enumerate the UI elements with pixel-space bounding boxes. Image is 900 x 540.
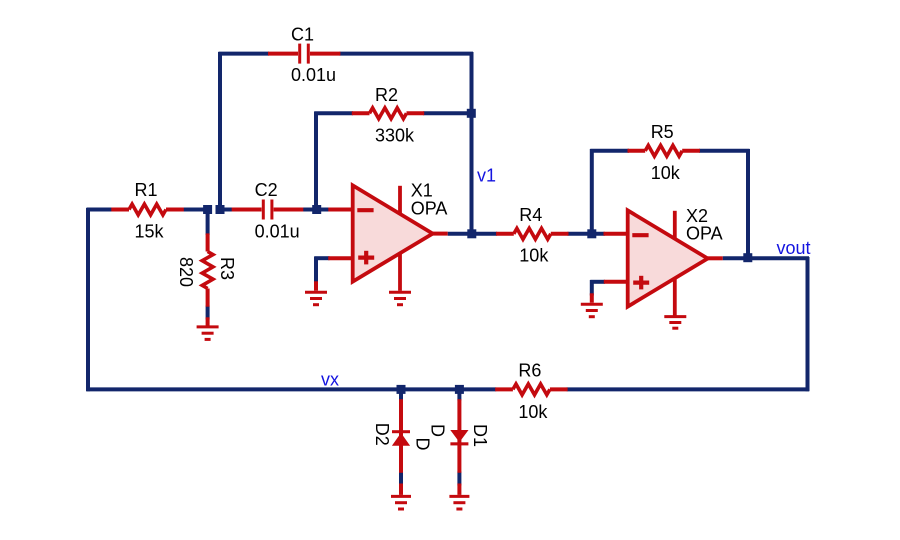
svg-text:v1: v1: [477, 166, 496, 186]
svg-text:820: 820: [176, 257, 196, 287]
svg-text:C1: C1: [291, 24, 314, 44]
svg-text:C2: C2: [255, 180, 278, 200]
svg-text:D2: D2: [372, 423, 392, 446]
svg-text:R4: R4: [519, 205, 542, 225]
svg-text:D: D: [412, 438, 432, 451]
svg-text:vx: vx: [321, 369, 339, 389]
svg-text:R6: R6: [518, 360, 541, 380]
svg-text:10k: 10k: [651, 163, 681, 183]
svg-text:330k: 330k: [375, 125, 415, 145]
svg-text:R1: R1: [135, 180, 158, 200]
svg-text:D: D: [428, 424, 448, 437]
svg-text:OPA: OPA: [686, 223, 723, 243]
svg-text:R3: R3: [217, 257, 237, 280]
svg-text:OPA: OPA: [411, 198, 448, 218]
svg-text:D1: D1: [470, 424, 490, 447]
svg-text:0.01u: 0.01u: [291, 65, 336, 85]
svg-text:15k: 15k: [135, 221, 165, 241]
svg-text:R2: R2: [375, 85, 398, 105]
svg-text:10k: 10k: [518, 402, 548, 422]
svg-text:R5: R5: [651, 122, 674, 142]
svg-text:vout: vout: [777, 238, 811, 258]
svg-text:10k: 10k: [519, 245, 549, 265]
svg-text:0.01u: 0.01u: [255, 221, 300, 241]
